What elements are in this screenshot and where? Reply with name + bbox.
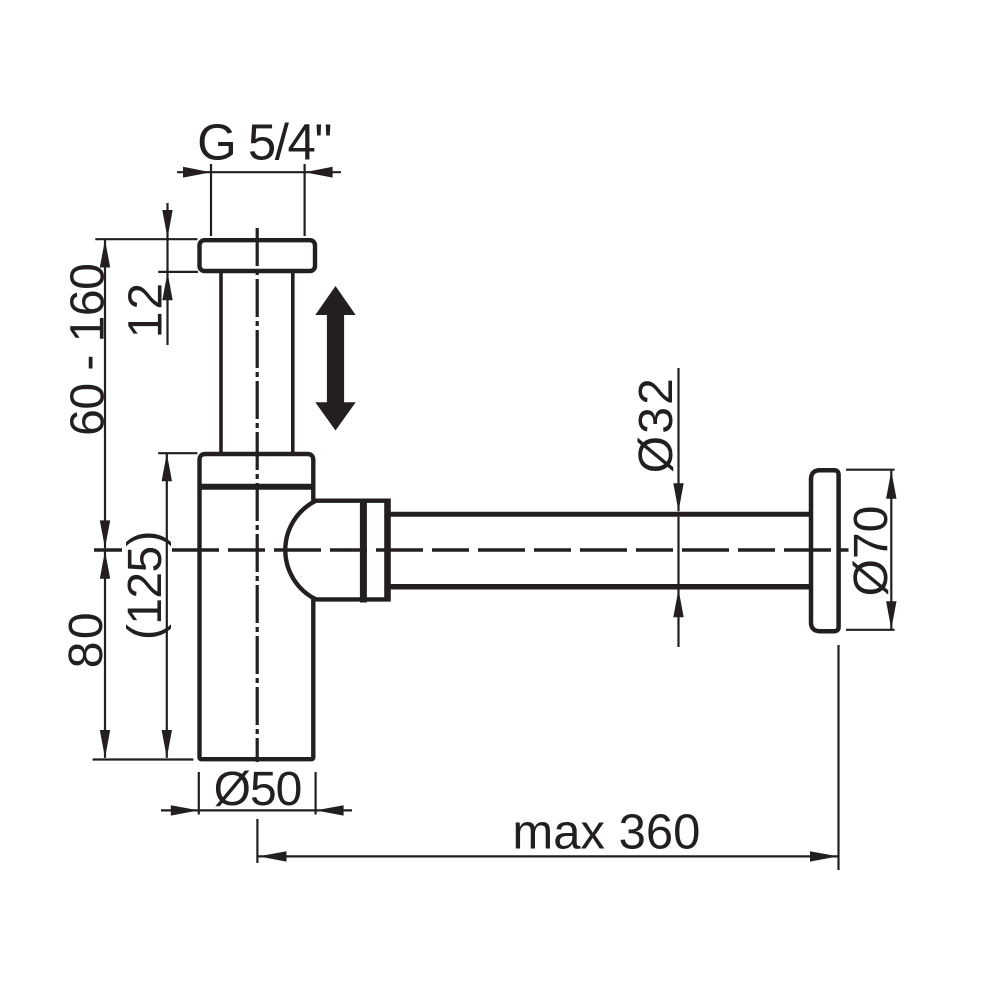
dimension G 5/4: arrow left xyxy=(183,167,211,178)
dimension O70: ext top xyxy=(846,469,895,471)
dimension 12: line xyxy=(166,203,168,345)
dimension max 360: right ext xyxy=(837,645,839,870)
dimension 80: arrow down xyxy=(100,730,110,758)
dimension 60-160: arrow up xyxy=(100,240,110,268)
dimension G 5/4: line xyxy=(177,171,341,173)
dimension O70: line xyxy=(890,471,892,629)
union nut bar 2 xyxy=(384,499,388,602)
wall flange (escutcheon) xyxy=(811,470,839,631)
dimension 80: line xyxy=(104,551,106,758)
dimension 12: arrow down xyxy=(162,210,172,238)
svg-text:Ø32: Ø32 xyxy=(630,376,683,473)
outlet pipe bottom wall xyxy=(389,584,810,590)
svg-text:Ø50: Ø50 xyxy=(214,763,302,816)
dimension O32: line above xyxy=(677,368,679,511)
inlet tube wall left xyxy=(219,272,223,453)
dimension (125): arrow down xyxy=(162,730,172,758)
dimension O32: arrow up xyxy=(673,589,683,617)
svg-text:60 - 160: 60 - 160 xyxy=(61,264,114,436)
dimension O50: ext right xyxy=(315,772,317,815)
dimension O70: arrow down xyxy=(886,601,896,629)
dimension 80: ext bottom xyxy=(93,758,194,760)
dimension 12: arrow up xyxy=(162,272,172,300)
dimension O50: line xyxy=(161,809,352,811)
svg-text:Ø70: Ø70 xyxy=(845,506,898,597)
dimension 60-160: line xyxy=(104,240,106,549)
dimension max 360: arrow right xyxy=(810,851,838,861)
dimension O50: arrow right-in xyxy=(316,805,344,815)
dimension O32: line through pipe xyxy=(677,517,679,585)
svg-text:G 5/4": G 5/4" xyxy=(197,114,331,171)
dimension O70: arrow up xyxy=(886,471,896,499)
dimension 60-160: arrow down xyxy=(100,520,110,548)
union nut bar 1 xyxy=(360,499,367,603)
svg-text:(125): (125) xyxy=(119,531,172,640)
dimension 80: arrow up xyxy=(100,551,110,579)
dimension O50: arrow left-in xyxy=(171,805,199,815)
movement double arrow xyxy=(315,286,355,431)
dimension (125): ext top xyxy=(158,452,197,454)
dimension G 5/4: extension right xyxy=(304,164,306,236)
trap cup body with lower union nut xyxy=(200,454,314,759)
elbow outlet (curved side, white body) xyxy=(285,501,388,600)
lower nut joint line xyxy=(198,484,316,490)
dimension (125): line xyxy=(166,453,168,758)
dimension (125): arrow up xyxy=(162,453,172,481)
dimension O50: ext left xyxy=(198,772,200,815)
inlet tube wall right xyxy=(291,272,295,453)
dimension O70: ext bottom xyxy=(846,629,895,631)
dimension O32: arrow down xyxy=(673,483,683,511)
svg-text:12: 12 xyxy=(119,281,172,338)
dimension 12: ext bottom xyxy=(158,271,198,273)
dimension max 360: arrow left xyxy=(259,851,287,861)
dimension 12: ext top (shared with 60-160) xyxy=(95,238,197,240)
centerline vertical (trap axis) xyxy=(256,228,259,762)
dimension G 5/4: arrow right xyxy=(305,167,333,178)
dimension G 5/4: extension left xyxy=(210,164,212,236)
svg-text:80: 80 xyxy=(60,610,113,668)
inlet top flange (G 5/4 nut) xyxy=(200,240,316,271)
dimension max 360: left tick xyxy=(256,819,258,863)
outlet pipe top wall xyxy=(389,512,810,517)
svg-text:max 360: max 360 xyxy=(512,805,700,859)
dimension O32: line below xyxy=(677,589,679,647)
centerline horizontal (outlet pipe axis) xyxy=(94,548,122,552)
dimension max 360: line xyxy=(258,855,838,857)
